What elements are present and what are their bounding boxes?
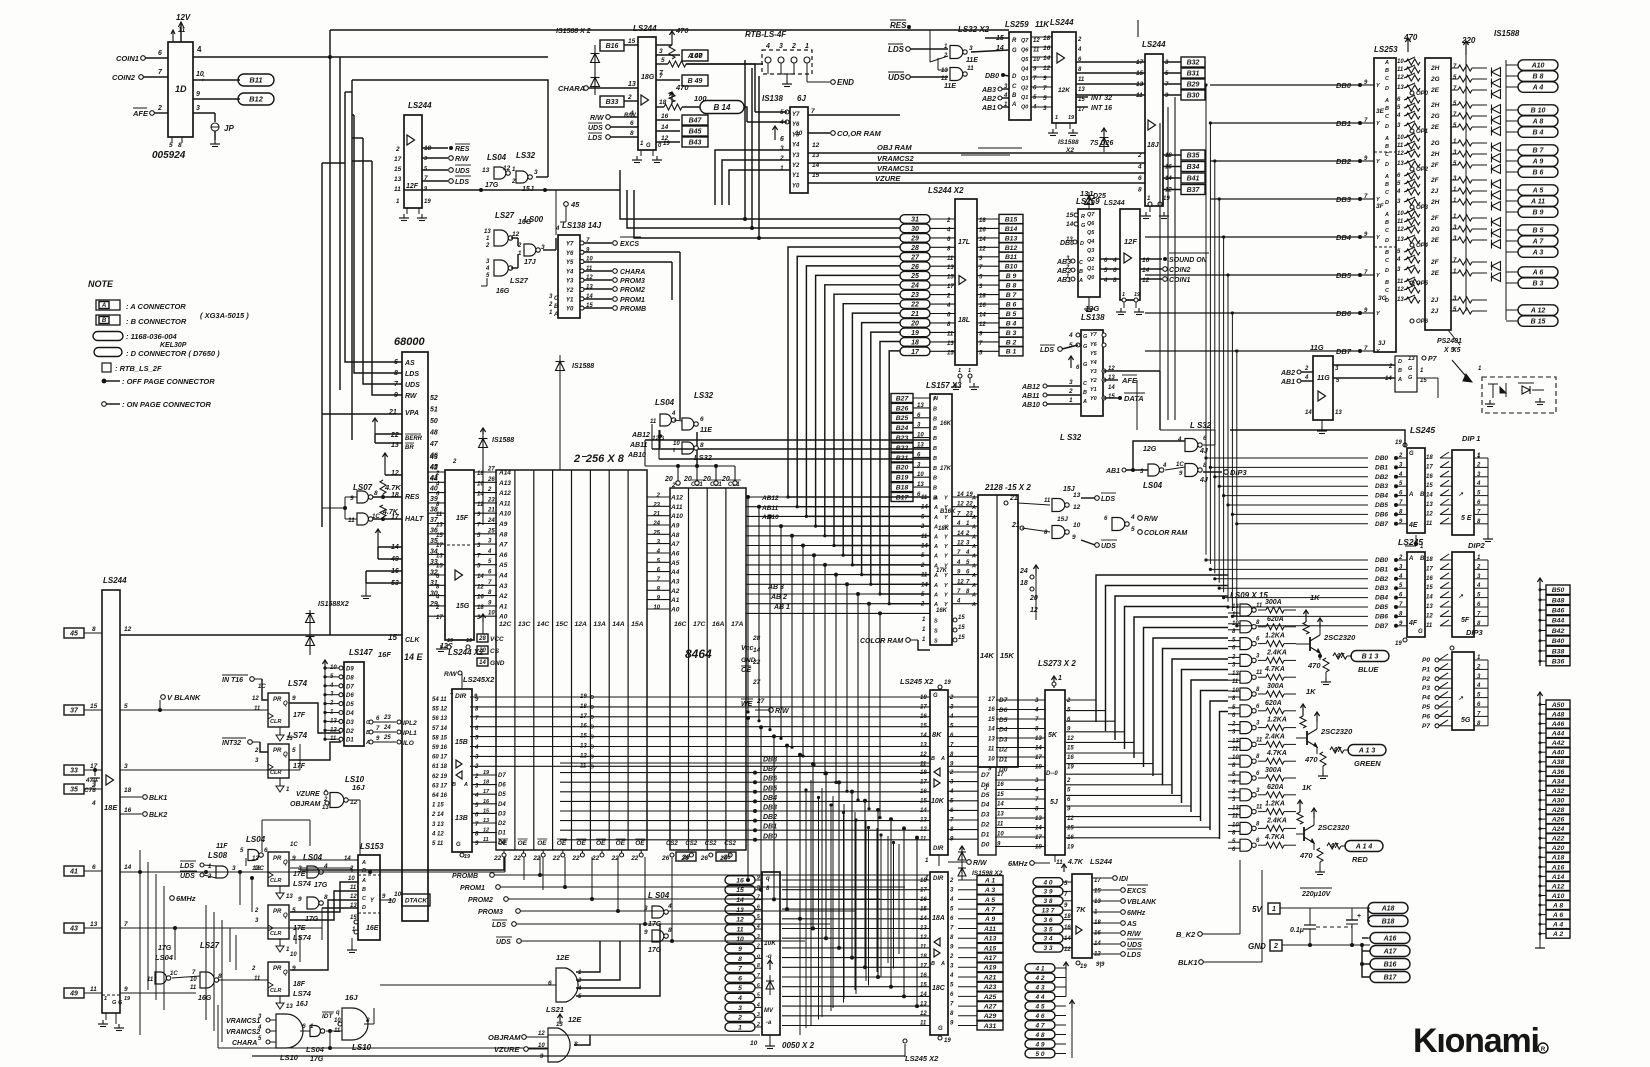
svg-text:B: B bbox=[931, 961, 935, 967]
svg-text:LS21: LS21 bbox=[546, 1005, 564, 1014]
svg-text:25: 25 bbox=[383, 735, 391, 741]
svg-text:4 6: 4 6 bbox=[1034, 1013, 1044, 1020]
svg-text:26: 26 bbox=[910, 264, 919, 271]
RAM block 2-256x8 12C-15A bbox=[496, 470, 647, 850]
svg-text:A4: A4 bbox=[670, 569, 680, 576]
svg-text:B14: B14 bbox=[1005, 226, 1018, 233]
svg-text:PR: PR bbox=[273, 966, 282, 972]
svg-text:B31: B31 bbox=[1187, 71, 1200, 78]
svg-text:LS138: LS138 bbox=[1081, 313, 1105, 322]
svg-text:D2: D2 bbox=[498, 821, 506, 827]
svg-text:11: 11 bbox=[997, 822, 1004, 828]
svg-text:17: 17 bbox=[920, 780, 927, 786]
bus DB0-DB3 rows right bbox=[1210, 84, 1360, 86]
svg-text:15: 15 bbox=[90, 703, 98, 710]
bus AB12 AB11 AB10 rows bbox=[645, 439, 930, 441]
svg-text:LS74: LS74 bbox=[288, 731, 308, 740]
svg-text:A: A bbox=[1397, 377, 1402, 383]
svg-text:OE: OE bbox=[518, 840, 528, 847]
pins 20 top block2 bbox=[676, 481, 680, 485]
svg-text:B26: B26 bbox=[896, 405, 909, 412]
svg-text:A 12: A 12 bbox=[1530, 308, 1546, 315]
svg-text:13: 13 bbox=[484, 229, 491, 235]
svg-text:13: 13 bbox=[1397, 161, 1404, 167]
pill A3 bbox=[1506, 251, 1518, 253]
svg-text:6MHz: 6MHz bbox=[176, 894, 196, 903]
svg-text:6: 6 bbox=[92, 864, 96, 871]
pill B18 bbox=[1368, 908, 1370, 921]
label RES out bbox=[422, 147, 448, 149]
svg-text:61 18: 61 18 bbox=[432, 764, 448, 770]
svg-text:A 5: A 5 bbox=[984, 897, 996, 904]
label 6MHz br bbox=[1092, 911, 1120, 913]
svg-text:27: 27 bbox=[910, 254, 920, 261]
svg-text:2: 2 bbox=[1066, 778, 1071, 784]
svg-text:4: 4 bbox=[1476, 481, 1481, 487]
gate LS09 3 bbox=[1240, 638, 1252, 650]
decoder LS259 11K bbox=[1009, 32, 1031, 120]
svg-text:16: 16 bbox=[1067, 835, 1074, 841]
svg-text:11: 11 bbox=[348, 517, 355, 524]
svg-text:A: A bbox=[1384, 136, 1389, 142]
svg-text:Q: Q bbox=[283, 752, 288, 758]
svg-text:4: 4 bbox=[474, 745, 479, 751]
svg-text:21: 21 bbox=[487, 508, 495, 514]
svg-text:5: 5 bbox=[292, 747, 296, 754]
svg-text:A46: A46 bbox=[1551, 721, 1565, 728]
svg-text:COLOR RAM: COLOR RAM bbox=[860, 638, 903, 645]
svg-text:11: 11 bbox=[947, 256, 954, 262]
svg-text:4: 4 bbox=[1398, 574, 1403, 580]
wires 4J cluster bbox=[1133, 441, 1185, 470]
box A47 bbox=[656, 54, 680, 56]
svg-text:IS1588: IS1588 bbox=[492, 437, 514, 444]
svg-text:11: 11 bbox=[650, 419, 657, 425]
svg-text:2: 2 bbox=[577, 978, 582, 984]
svg-text:BLUE: BLUE bbox=[1358, 665, 1379, 674]
svg-text:VZURE: VZURE bbox=[296, 791, 320, 798]
svg-text:16: 16 bbox=[1426, 474, 1433, 480]
svg-text:3: 3 bbox=[757, 1012, 760, 1018]
svg-text:AS: AS bbox=[404, 360, 415, 367]
svg-text:G: G bbox=[1083, 344, 1088, 350]
svg-text:AB2: AB2 bbox=[981, 96, 996, 103]
svg-text:OE: OE bbox=[537, 840, 547, 847]
svg-text:OE: OE bbox=[635, 840, 645, 847]
resistor 470 top bbox=[656, 44, 672, 46]
svg-text:21: 21 bbox=[910, 311, 919, 318]
svg-text:UDS: UDS bbox=[1101, 543, 1116, 550]
svg-text:4: 4 bbox=[1396, 257, 1401, 263]
bus waterfall verticals extra bbox=[805, 790, 807, 1028]
svg-text:G: G bbox=[646, 143, 651, 149]
svg-text:5: 5 bbox=[169, 142, 173, 149]
svg-text:15A: 15A bbox=[631, 621, 644, 628]
flip-flop LS74 17E-2 bbox=[268, 905, 289, 939]
svg-text:Y7: Y7 bbox=[792, 112, 800, 118]
svg-text:A5: A5 bbox=[670, 560, 680, 567]
svg-text:5J: 5J bbox=[1050, 799, 1059, 806]
svg-text:11: 11 bbox=[920, 837, 927, 843]
wire 1D pin4 to bus bbox=[193, 56, 548, 58]
svg-text:13: 13 bbox=[628, 81, 636, 88]
svg-text:14: 14 bbox=[997, 802, 1004, 808]
svg-text:12E: 12E bbox=[568, 1015, 582, 1024]
label LDS 15J bbox=[1095, 496, 1100, 501]
svg-text:LS00: LS00 bbox=[524, 215, 544, 224]
svg-text:D: D bbox=[1080, 241, 1084, 247]
svg-text:Y4: Y4 bbox=[1090, 360, 1097, 366]
svg-text:11: 11 bbox=[920, 762, 927, 768]
svg-text:DIR: DIR bbox=[455, 693, 467, 700]
svg-text:LS09 X 15: LS09 X 15 bbox=[1230, 591, 1268, 600]
svg-text:q: q bbox=[757, 953, 760, 959]
svg-text:3: 3 bbox=[780, 145, 784, 152]
svg-text:10: 10 bbox=[290, 952, 297, 958]
wire VZURE row bbox=[808, 182, 1145, 184]
pill A7 bbox=[1506, 240, 1518, 242]
svg-text:16K: 16K bbox=[940, 421, 952, 427]
svg-text:12: 12 bbox=[503, 165, 511, 172]
svg-text:18E: 18E bbox=[104, 803, 118, 812]
label PROM2 out bbox=[584, 288, 612, 290]
svg-text:A27: A27 bbox=[983, 1004, 998, 1011]
svg-text:B: B bbox=[1398, 368, 1402, 374]
svg-text:D5: D5 bbox=[498, 792, 506, 798]
svg-text:2: 2 bbox=[91, 782, 96, 789]
buffer LS244 18G bbox=[638, 37, 656, 150]
svg-text:13: 13 bbox=[1066, 237, 1073, 243]
svg-text:6: 6 bbox=[757, 983, 760, 989]
svg-text:A18: A18 bbox=[1381, 906, 1395, 913]
svg-text:1: 1 bbox=[1055, 115, 1058, 121]
svg-text:B 49: B 49 bbox=[688, 78, 703, 85]
svg-text:27: 27 bbox=[487, 467, 495, 473]
svg-text:IS1588: IS1588 bbox=[1058, 139, 1079, 146]
svg-text:8: 8 bbox=[366, 1017, 370, 1024]
buffer LS244 X2 15F 15G bbox=[445, 470, 474, 640]
svg-text:2F: 2F bbox=[1430, 215, 1440, 222]
svg-text:12: 12 bbox=[1030, 607, 1038, 614]
svg-text:JP: JP bbox=[224, 124, 234, 133]
svg-text:COIN2: COIN2 bbox=[1169, 267, 1191, 274]
svg-text:8: 8 bbox=[738, 956, 742, 963]
svg-text:2128 -15 X 2: 2128 -15 X 2 bbox=[984, 483, 1031, 492]
wires ff verticals bbox=[229, 928, 231, 962]
svg-text:VRAMCS1: VRAMCS1 bbox=[226, 1018, 260, 1025]
svg-text:17L: 17L bbox=[958, 239, 970, 246]
pill B17r bbox=[1370, 972, 1410, 983]
svg-text:15: 15 bbox=[1066, 212, 1074, 219]
svg-text:4.7KA: 4.7KA bbox=[1264, 666, 1285, 673]
svg-text:D: D bbox=[1385, 162, 1389, 168]
svg-text:CS2: CS2 bbox=[705, 841, 717, 847]
svg-text:19: 19 bbox=[1134, 292, 1141, 298]
svg-text:R/W: R/W bbox=[590, 115, 605, 122]
svg-text:14: 14 bbox=[124, 864, 132, 871]
svg-text:1C: 1C bbox=[290, 842, 298, 848]
svg-text:13: 13 bbox=[1035, 736, 1042, 742]
svg-text:2: 2 bbox=[920, 524, 925, 530]
address labels A14-A0 bbox=[474, 471, 497, 473]
svg-text:12: 12 bbox=[1073, 504, 1081, 511]
svg-text:4: 4 bbox=[1137, 164, 1142, 171]
wires 13B outputs to D rows bbox=[472, 774, 497, 776]
svg-text:2F: 2F bbox=[1430, 259, 1440, 266]
svg-text:16K: 16K bbox=[936, 608, 948, 614]
svg-text:56 13: 56 13 bbox=[432, 716, 448, 722]
svg-text:14: 14 bbox=[1035, 826, 1042, 832]
svg-text:A: A bbox=[1408, 492, 1413, 498]
svg-text:11: 11 bbox=[1256, 737, 1263, 743]
svg-text:18G: 18G bbox=[641, 74, 655, 81]
svg-text:B: B bbox=[1385, 106, 1389, 112]
svg-text:UDS: UDS bbox=[588, 125, 603, 132]
svg-text:D: D bbox=[590, 735, 594, 741]
svg-text:7: 7 bbox=[1043, 85, 1047, 92]
svg-text:DB7: DB7 bbox=[1375, 623, 1388, 630]
wire 16J out bbox=[348, 799, 360, 801]
svg-text:11: 11 bbox=[254, 706, 261, 712]
svg-text:9: 9 bbox=[350, 495, 354, 502]
svg-text:R: R bbox=[1081, 214, 1085, 220]
svg-text:26: 26 bbox=[681, 854, 690, 861]
svg-text:6: 6 bbox=[700, 416, 704, 423]
svg-text:17C: 17C bbox=[252, 865, 264, 872]
wire 18E row 872 bbox=[120, 871, 505, 873]
svg-text:20: 20 bbox=[683, 476, 692, 483]
bus waterfall verticals lower bbox=[799, 772, 801, 1035]
svg-text:A: A bbox=[971, 593, 976, 599]
svg-text:A 7: A 7 bbox=[984, 907, 997, 914]
svg-text:470: 470 bbox=[1299, 851, 1313, 860]
svg-text:8: 8 bbox=[92, 626, 96, 633]
svg-text:15: 15 bbox=[920, 983, 927, 989]
svg-text:2: 2 bbox=[920, 602, 925, 608]
svg-text:17K: 17K bbox=[940, 466, 952, 472]
svg-text:B: B bbox=[1079, 269, 1083, 275]
svg-text:DB0: DB0 bbox=[1375, 455, 1388, 462]
label UDS 15J bbox=[1095, 543, 1100, 548]
svg-text:12: 12 bbox=[1426, 511, 1433, 517]
svg-text:22: 22 bbox=[493, 855, 502, 862]
wire CPU frame outer bbox=[352, 80, 548, 163]
svg-text:4: 4 bbox=[1476, 683, 1481, 689]
svg-text:1.2KA: 1.2KA bbox=[1267, 717, 1287, 724]
svg-text:LDS: LDS bbox=[888, 45, 905, 54]
svg-text:11F: 11F bbox=[216, 843, 228, 850]
svg-text:2SC2320: 2SC2320 bbox=[1320, 727, 1353, 736]
svg-text:G: G bbox=[1418, 629, 1423, 635]
svg-text:B: B bbox=[1083, 390, 1087, 396]
svg-text:B22: B22 bbox=[896, 445, 909, 452]
svg-text:220: 220 bbox=[1461, 36, 1476, 45]
svg-text:OE: OE bbox=[498, 840, 508, 847]
svg-text:13: 13 bbox=[947, 265, 954, 271]
svg-text:B 5: B 5 bbox=[1006, 311, 1017, 318]
svg-text:D: D bbox=[1012, 74, 1017, 80]
svg-text:4: 4 bbox=[1162, 463, 1167, 469]
svg-text:CS2: CS2 bbox=[724, 841, 736, 847]
svg-text:4.7KA: 4.7KA bbox=[1264, 834, 1285, 841]
svg-text:4: 4 bbox=[1396, 113, 1401, 119]
svg-text:VRAMCS2: VRAMCS2 bbox=[226, 1029, 260, 1036]
svg-text:4: 4 bbox=[756, 1002, 760, 1008]
svg-text:2: 2 bbox=[946, 218, 951, 224]
svg-text:LS244: LS244 bbox=[1050, 18, 1074, 27]
connector pill B12 bbox=[193, 98, 240, 100]
svg-text:11E: 11E bbox=[700, 427, 712, 434]
svg-text:11: 11 bbox=[921, 534, 928, 540]
box conn 35 bbox=[64, 784, 84, 794]
svg-text:5: 5 bbox=[738, 985, 742, 992]
svg-text:Q2: Q2 bbox=[1021, 86, 1028, 92]
svg-text:R/W: R/W bbox=[973, 860, 988, 867]
svg-text:2.4KA: 2.4KA bbox=[1266, 817, 1287, 824]
svg-text:2G: 2G bbox=[1430, 113, 1440, 120]
svg-text:17: 17 bbox=[394, 156, 402, 163]
svg-text:DB7: DB7 bbox=[1336, 347, 1352, 356]
wire LS27 out bottom bbox=[218, 979, 268, 981]
svg-text:A4: A4 bbox=[498, 573, 508, 580]
wire 6J Y7 long bbox=[808, 114, 900, 116]
svg-text:A1: A1 bbox=[670, 597, 680, 604]
svg-text:2J: 2J bbox=[1430, 188, 1439, 195]
svg-text:B46: B46 bbox=[1552, 608, 1565, 615]
svg-text:13: 13 bbox=[988, 737, 995, 743]
wire OBJ RAM row bbox=[808, 152, 1145, 154]
svg-text:12: 12 bbox=[538, 1031, 545, 1037]
svg-text:A10: A10 bbox=[670, 513, 683, 520]
svg-text:4 7: 4 7 bbox=[1034, 1022, 1044, 1029]
svg-text:19: 19 bbox=[464, 854, 471, 860]
svg-text:620A: 620A bbox=[1265, 700, 1282, 707]
svg-text:B: B bbox=[1420, 492, 1425, 498]
svg-text:5V: 5V bbox=[1252, 905, 1262, 914]
svg-text:2SC2320: 2SC2320 bbox=[1323, 633, 1356, 642]
svg-text:3: 3 bbox=[1043, 105, 1047, 112]
svg-text:10: 10 bbox=[488, 611, 495, 617]
svg-text:63 17: 63 17 bbox=[432, 783, 448, 789]
svg-text:P1: P1 bbox=[1422, 666, 1430, 673]
svg-text:4 3: 4 3 bbox=[1034, 984, 1044, 991]
svg-text:16: 16 bbox=[124, 807, 132, 814]
wires pills 41-50 bus bbox=[1065, 968, 1067, 996]
svg-text:11: 11 bbox=[190, 985, 197, 991]
gate LS09 2 bbox=[1240, 621, 1252, 633]
wires LS157 Y to 2128 bbox=[952, 496, 978, 498]
label BLK1 left bbox=[120, 796, 142, 798]
svg-text:B 15: B 15 bbox=[1531, 319, 1546, 326]
svg-text:Y4: Y4 bbox=[566, 269, 574, 275]
svg-text:2.4KA: 2.4KA bbox=[1264, 733, 1285, 740]
svg-text:16G: 16G bbox=[198, 995, 212, 1002]
svg-text:12: 12 bbox=[1142, 277, 1150, 284]
svg-text:18: 18 bbox=[920, 695, 927, 701]
svg-text:12: 12 bbox=[1067, 736, 1074, 742]
svg-text:LS259: LS259 bbox=[1076, 197, 1100, 206]
svg-text:2J: 2J bbox=[1430, 308, 1439, 315]
svg-text:3F: 3F bbox=[1376, 203, 1385, 210]
svg-text:54 11: 54 11 bbox=[432, 697, 447, 703]
svg-text:D4: D4 bbox=[498, 802, 506, 808]
svg-text:6MHz: 6MHz bbox=[1008, 859, 1028, 868]
svg-text:14: 14 bbox=[1305, 410, 1312, 416]
svg-text:48: 48 bbox=[429, 430, 438, 437]
svg-text:2: 2 bbox=[949, 695, 954, 701]
gate LS09 9 bbox=[1240, 738, 1252, 750]
pill A14 RED bbox=[1345, 841, 1383, 852]
svg-text:A: A bbox=[971, 515, 976, 521]
svg-text:15: 15 bbox=[580, 734, 587, 740]
svg-text:17G: 17G bbox=[485, 182, 499, 189]
svg-text:1C: 1C bbox=[170, 971, 178, 977]
svg-text:4.7K: 4.7K bbox=[1067, 859, 1084, 866]
svg-text:A: A bbox=[971, 525, 976, 531]
svg-text:33: 33 bbox=[70, 768, 78, 775]
svg-text:13: 13 bbox=[286, 894, 293, 900]
svg-text:LS244: LS244 bbox=[1090, 857, 1113, 866]
svg-text:12: 12 bbox=[736, 917, 744, 924]
bus verticals to LS09 inputs bbox=[1228, 606, 1240, 608]
svg-text:23: 23 bbox=[652, 502, 660, 508]
svg-text:R: R bbox=[1541, 1047, 1546, 1053]
svg-text:10: 10 bbox=[673, 441, 680, 447]
wire 18E row 770 bbox=[120, 769, 300, 771]
wire vertical x322 bbox=[321, 163, 323, 527]
svg-text:A: A bbox=[1384, 212, 1389, 218]
svg-text:19: 19 bbox=[466, 638, 473, 644]
svg-text:B16: B16 bbox=[606, 43, 619, 50]
svg-text:A3: A3 bbox=[498, 583, 508, 590]
svg-text:14: 14 bbox=[1385, 376, 1392, 382]
svg-text:IS1588 X 2: IS1588 X 2 bbox=[556, 28, 591, 35]
svg-text:12: 12 bbox=[483, 828, 489, 834]
svg-text:B16: B16 bbox=[1384, 962, 1397, 969]
svg-text:15: 15 bbox=[628, 38, 636, 45]
svg-text:12: 12 bbox=[1043, 65, 1051, 72]
svg-text:20: 20 bbox=[664, 476, 673, 483]
svg-text:A23: A23 bbox=[983, 984, 997, 991]
wire 18E row 928 bbox=[120, 927, 322, 929]
svg-text:PROM3: PROM3 bbox=[478, 909, 503, 916]
svg-text:24: 24 bbox=[910, 283, 919, 290]
svg-text:3: 3 bbox=[738, 1005, 742, 1012]
svg-text:2: 2 bbox=[1398, 555, 1403, 561]
svg-text:13G: 13G bbox=[1085, 304, 1099, 313]
svg-text:PROM1: PROM1 bbox=[460, 885, 485, 892]
svg-text:B: B bbox=[933, 406, 937, 412]
svg-text:4 2: 4 2 bbox=[1034, 975, 1044, 982]
label RW mid bottom bbox=[948, 861, 966, 863]
decoder LS138 13G bbox=[1081, 330, 1103, 416]
wire AFE-DATA verticals bbox=[1136, 380, 1138, 430]
svg-text:B_K2: B_K2 bbox=[1176, 930, 1196, 939]
svg-text:4 0: 4 0 bbox=[1042, 879, 1052, 886]
label DTACK bbox=[380, 899, 392, 901]
svg-text:R/W: R/W bbox=[444, 671, 458, 678]
wire VPA bbox=[322, 413, 402, 415]
svg-text:B: B bbox=[933, 466, 937, 472]
box B43 bbox=[656, 141, 680, 143]
svg-text:B 9: B 9 bbox=[1533, 210, 1544, 217]
svg-text:4: 4 bbox=[956, 560, 961, 566]
svg-text:15: 15 bbox=[920, 799, 927, 805]
svg-text:17: 17 bbox=[1078, 107, 1085, 113]
svg-text:23: 23 bbox=[910, 292, 919, 299]
svg-text:B: B bbox=[933, 426, 937, 432]
svg-text:62 19: 62 19 bbox=[432, 774, 448, 780]
